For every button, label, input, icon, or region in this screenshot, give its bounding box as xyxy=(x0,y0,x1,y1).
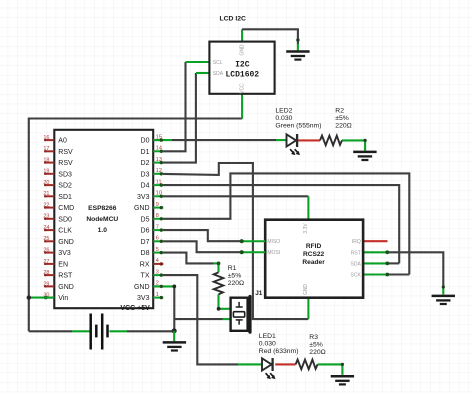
svg-text:9: 9 xyxy=(156,202,159,208)
svg-text:R1: R1 xyxy=(228,265,237,272)
svg-text:GND: GND xyxy=(303,284,309,296)
svg-text:I2C: I2C xyxy=(235,60,250,69)
pin 15 D0 (right) xyxy=(141,134,164,144)
ground RFID RST net xyxy=(432,296,455,304)
pin 17 RSV (left) xyxy=(43,146,73,156)
svg-text:27: 27 xyxy=(43,259,49,265)
svg-text:D4: D4 xyxy=(141,183,150,190)
pin 9 GND (right) xyxy=(134,202,163,212)
LED LED2 xyxy=(287,134,301,155)
wire D1 to LCD SCL xyxy=(163,62,186,151)
svg-text:SCL: SCL xyxy=(213,60,223,66)
label J1 xyxy=(255,290,263,297)
svg-text:SDA: SDA xyxy=(213,71,224,77)
pin 10 3V3 (right) xyxy=(137,191,163,201)
svg-text:8: 8 xyxy=(156,213,159,219)
wire D7 to RFID MOSI xyxy=(163,241,242,252)
wire LED2 cathode to R2 (red) xyxy=(298,139,320,141)
svg-text:5: 5 xyxy=(156,247,159,253)
wire D8 to resistor R1 xyxy=(163,253,219,264)
svg-text:SD1: SD1 xyxy=(58,194,72,201)
pin 7 D6 (right) xyxy=(141,224,164,234)
svg-text:28: 28 xyxy=(43,270,49,276)
pin 1 3V3 (right) xyxy=(137,292,163,302)
svg-text:D7: D7 xyxy=(141,239,150,246)
svg-text:LED1: LED1 xyxy=(259,333,276,340)
svg-text:25: 25 xyxy=(43,236,49,242)
pin 27 EN (left) xyxy=(43,259,68,269)
svg-text:D8: D8 xyxy=(141,250,150,257)
svg-text:CMD: CMD xyxy=(58,205,74,212)
svg-text:LED2: LED2 xyxy=(275,107,292,114)
pin 29 GND (left) xyxy=(43,281,73,291)
svg-text:VCC: VCC xyxy=(240,83,246,94)
pin 8 D5 (right) xyxy=(141,213,164,223)
pin 11 D4 (right) xyxy=(141,179,164,189)
pin 4 RX (right) xyxy=(140,258,164,268)
svg-text:SCK: SCK xyxy=(351,273,362,279)
ground battery/ESP GND xyxy=(163,342,186,350)
label R3 values xyxy=(309,334,325,356)
svg-text:3V3: 3V3 xyxy=(137,194,150,201)
wire ESP GND to ground rail xyxy=(153,285,176,331)
svg-text:3.3V: 3.3V xyxy=(303,223,309,234)
svg-text:CLK: CLK xyxy=(58,228,72,235)
wire D0 to LED2 anode (green) xyxy=(153,139,286,141)
svg-text:Reader: Reader xyxy=(302,259,325,266)
label R2 values xyxy=(335,107,351,129)
pin 13 D2 (right) xyxy=(141,157,164,167)
svg-text:±5%: ±5% xyxy=(309,341,323,348)
svg-text:220Ω: 220Ω xyxy=(335,122,351,129)
svg-text:LCD I2C: LCD I2C xyxy=(220,16,247,23)
pin 25 GND (left) xyxy=(43,236,73,246)
svg-text:±5%: ±5% xyxy=(228,272,242,279)
wire Vin to VCC riser (green) xyxy=(29,297,55,299)
svg-text:D3: D3 xyxy=(141,171,150,178)
svg-text:13: 13 xyxy=(156,157,162,163)
wire R3 to ground (green) xyxy=(318,363,344,375)
pin 16 A0 (left) xyxy=(43,135,67,145)
wire ground tail below junction (green) xyxy=(173,331,175,341)
resistor R3 xyxy=(296,360,318,370)
resistor R1 xyxy=(214,272,224,294)
wire RFID IRQ stub (unconnected, red) xyxy=(363,240,387,242)
wire RFID SDA stub xyxy=(363,262,399,266)
svg-text:R3: R3 xyxy=(309,334,318,341)
svg-text:RSV: RSV xyxy=(58,160,73,167)
pin 22 CMD (left) xyxy=(43,203,74,213)
node junction Vin/VCC riser xyxy=(27,295,48,299)
pin 5 D8 (right) xyxy=(141,247,164,257)
wire TX to LED1 anode xyxy=(163,275,262,364)
svg-text:VCC +5V: VCC +5V xyxy=(120,305,150,312)
svg-text:7: 7 xyxy=(156,224,159,230)
battery BT1 xyxy=(91,314,108,350)
svg-text:IRQ: IRQ xyxy=(352,239,361,245)
wire RFID SCK stub xyxy=(363,273,409,277)
op RFID RC522 reader body xyxy=(265,220,363,298)
resistor R2 xyxy=(320,136,342,146)
svg-text:TX: TX xyxy=(141,273,150,280)
svg-text:±5%: ±5% xyxy=(335,115,349,122)
svg-text:SDA: SDA xyxy=(351,261,362,267)
wire LCD SDA stub (green) xyxy=(196,72,210,74)
svg-text:RFID: RFID xyxy=(306,243,322,250)
label LED2 values xyxy=(275,107,321,129)
wire RFID RST to ground xyxy=(363,250,445,294)
svg-text:EN: EN xyxy=(58,262,68,269)
svg-text:18: 18 xyxy=(43,158,49,164)
wire GND rail branch to J1 pin xyxy=(174,318,230,320)
pin 12 D3 (right) xyxy=(141,168,164,178)
svg-text:220Ω: 220Ω xyxy=(309,349,325,356)
svg-text:D1: D1 xyxy=(141,149,150,156)
svg-text:MOSI: MOSI xyxy=(267,250,280,256)
svg-text:A0: A0 xyxy=(58,138,67,145)
svg-text:GND: GND xyxy=(134,284,150,291)
svg-text:RX: RX xyxy=(140,262,150,269)
svg-text:Green (555nm): Green (555nm) xyxy=(275,122,321,129)
svg-text:11: 11 xyxy=(156,179,162,185)
pin 26 3V3 (left) xyxy=(43,248,70,258)
wire R2 to ground (green) xyxy=(342,139,367,151)
wire battery to ground junction xyxy=(29,330,174,332)
svg-text:6: 6 xyxy=(156,236,159,242)
svg-text:220Ω: 220Ω xyxy=(228,280,244,287)
label LED1 values xyxy=(259,333,299,355)
svg-text:MISO: MISO xyxy=(267,239,280,245)
pin 6 D7 (right) xyxy=(141,236,164,246)
wire VCC left riser from battery+ to LCD VCC xyxy=(29,119,242,332)
svg-text:1: 1 xyxy=(156,292,159,298)
pin 21 SD1 (left) xyxy=(43,191,72,201)
pin MOSI stub (RFID) xyxy=(240,250,266,254)
wire D6 to RFID MISO xyxy=(163,230,242,241)
pin 20 SD2 (left) xyxy=(43,180,72,190)
svg-text:RSV: RSV xyxy=(58,149,73,156)
svg-text:20: 20 xyxy=(43,180,49,186)
svg-text:15: 15 xyxy=(156,134,162,140)
wire LCD SCL stub (green) xyxy=(186,61,210,63)
svg-text:GND: GND xyxy=(58,239,74,246)
wire RFID GND drop (green) xyxy=(307,298,309,319)
svg-text:SD0: SD0 xyxy=(58,216,72,223)
pin 14 D1 (right) xyxy=(141,146,164,156)
svg-text:0.030: 0.030 xyxy=(275,115,292,122)
wire LCD VCC drop (green) xyxy=(241,94,243,119)
svg-text:21: 21 xyxy=(43,191,49,197)
wire D4 to RFID SDA xyxy=(163,185,399,263)
pin 23 SD0 (left) xyxy=(43,214,72,224)
svg-text:GND: GND xyxy=(134,205,150,212)
pin 28 RST (left) xyxy=(43,270,73,280)
svg-text:J1: J1 xyxy=(255,290,263,297)
pin 24 CLK (left) xyxy=(43,225,72,235)
pin 30 Vin (left) xyxy=(43,293,68,303)
svg-text:SD3: SD3 xyxy=(58,171,72,178)
wire D2 to LCD SDA xyxy=(163,73,196,163)
svg-text:Red (633nm): Red (633nm) xyxy=(259,348,299,355)
svg-text:RST: RST xyxy=(58,273,73,280)
ground R3 net xyxy=(331,376,354,384)
ground R2 net xyxy=(353,152,376,160)
svg-text:NodeMCU: NodeMCU xyxy=(86,216,118,223)
svg-text:D2: D2 xyxy=(141,160,150,167)
svg-text:10: 10 xyxy=(156,191,162,197)
wire LCD GND to ground xyxy=(242,29,299,50)
svg-text:D5: D5 xyxy=(141,216,150,223)
op LCD1602 I2C module body xyxy=(209,42,274,94)
svg-text:30: 30 xyxy=(43,293,49,299)
svg-text:3V3: 3V3 xyxy=(137,295,150,302)
svg-text:3: 3 xyxy=(156,269,159,275)
svg-text:3V3: 3V3 xyxy=(58,250,71,257)
svg-text:2: 2 xyxy=(156,281,159,287)
svg-text:1.0: 1.0 xyxy=(98,227,108,234)
label LCD I2C xyxy=(220,16,247,23)
wire R1 bottom to J1 pin 1 (green) xyxy=(217,262,231,311)
svg-text:29: 29 xyxy=(43,281,49,287)
pin MISO stub (RFID) xyxy=(240,239,266,243)
svg-text:0.030: 0.030 xyxy=(259,340,276,347)
svg-text:RST: RST xyxy=(351,250,361,256)
svg-text:SD2: SD2 xyxy=(58,183,72,190)
svg-text:LCD1602: LCD1602 xyxy=(225,70,259,79)
svg-text:4: 4 xyxy=(156,258,159,264)
svg-text:R2: R2 xyxy=(335,107,344,114)
node junction GND rail / battery xyxy=(172,328,177,333)
svg-text:14: 14 xyxy=(156,146,162,152)
svg-text:RCS22: RCS22 xyxy=(303,251,325,258)
op ESP8266 NodeMCU U1 body xyxy=(54,130,153,312)
wire LED1 cathode to R3 (red) xyxy=(275,363,295,365)
pin 18 RSV (left) xyxy=(43,158,73,168)
wire GND rail J1 to RFID GND xyxy=(252,318,309,320)
svg-text:23: 23 xyxy=(43,214,49,220)
wire D3 jog to GND rail at J1 xyxy=(163,163,253,319)
label R1 values xyxy=(228,265,244,287)
svg-text:17: 17 xyxy=(43,146,49,152)
svg-text:ESP8266: ESP8266 xyxy=(88,205,117,212)
svg-text:D6: D6 xyxy=(141,228,150,235)
LED LED1 xyxy=(262,358,276,379)
svg-text:Vin: Vin xyxy=(58,295,68,302)
svg-text:24: 24 xyxy=(43,225,49,231)
svg-text:12: 12 xyxy=(156,168,162,174)
svg-text:22: 22 xyxy=(43,203,49,209)
svg-text:GND: GND xyxy=(58,284,74,291)
wire D5 to RFID SCK xyxy=(163,173,409,274)
pin 2 GND (right) xyxy=(134,281,163,291)
svg-text:16: 16 xyxy=(43,135,49,141)
pin 3 TX (right) xyxy=(141,269,164,279)
svg-text:GND: GND xyxy=(240,44,246,56)
svg-text:D0: D0 xyxy=(141,138,150,145)
wire ESP 3V3 to RFID 3.3V xyxy=(163,196,308,219)
svg-text:19: 19 xyxy=(43,169,49,175)
buzzer J1 body xyxy=(231,295,252,334)
ground LCD GND xyxy=(286,52,309,60)
svg-text:26: 26 xyxy=(43,248,49,254)
pin 19 SD3 (left) xyxy=(43,169,72,179)
